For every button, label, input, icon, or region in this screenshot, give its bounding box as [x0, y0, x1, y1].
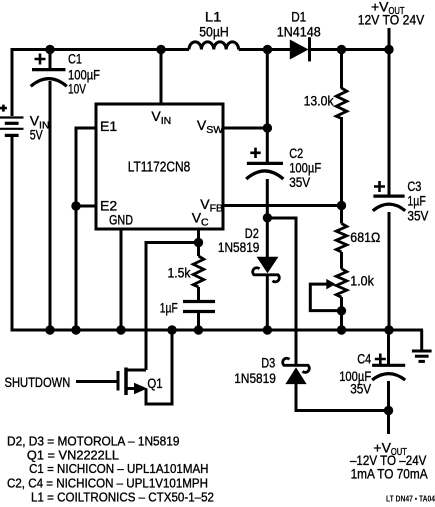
wire D2 node to D3 branch — [267, 218, 296, 364]
svg-text:5V: 5V — [30, 126, 44, 142]
capacitor C4 — [372, 365, 405, 380]
svg-text:1.5k: 1.5k — [168, 265, 192, 281]
wire C4 top lead — [387, 330, 390, 365]
svg-text:13.0k: 13.0k — [304, 92, 335, 108]
wire battery bottom to ground rail — [11, 136, 14, 332]
diode D2 schottky — [253, 257, 280, 282]
capacitor C3 — [373, 196, 405, 211]
svg-text:D3: D3 — [261, 355, 275, 371]
wire ground rail — [12, 329, 423, 332]
svg-text:1N5819: 1N5819 — [218, 239, 260, 255]
svg-text:1N4148: 1N4148 — [277, 23, 321, 39]
wire 1.5k to 1uF — [197, 287, 200, 301]
wire E1 E2 vertical to ground — [76, 128, 96, 330]
svg-text:C1 = NICHICON – UPL1A101MAH: C1 = NICHICON – UPL1A101MAH — [29, 461, 208, 476]
wire top rail — [12, 48, 389, 51]
wire VSW pin to C2 line — [223, 127, 267, 130]
inductor L1 — [189, 42, 239, 50]
node dot pot bottom — [337, 306, 346, 315]
wire pot bottom lead — [340, 297, 343, 330]
svg-text:1N5819: 1N5819 — [234, 370, 276, 386]
wire VIN pin to top rail — [160, 48, 163, 104]
svg-text:LT1172CN8: LT1172CN8 — [128, 159, 191, 176]
svg-text:C2, C4 = NICHICON – UPL1V101MP: C2, C4 = NICHICON – UPL1V101MPH — [7, 475, 208, 490]
svg-text:Q1 = VN2222LL: Q1 = VN2222LL — [27, 447, 119, 462]
wire shutdown gate lead — [76, 380, 117, 383]
resistor 13.0k — [336, 88, 347, 119]
wire C2 vertical upper — [266, 48, 269, 163]
svg-text:35V: 35V — [407, 208, 429, 224]
ground — [412, 351, 432, 361]
svg-text:35V: 35V — [350, 381, 372, 397]
svg-text:SHUTDOWN: SHUTDOWN — [5, 374, 71, 390]
wire VC node to Q1 drain — [146, 243, 199, 371]
wire D3 anode down and across to C4 bottom — [296, 384, 389, 411]
node dot C4 bottom — [384, 406, 393, 415]
node dots ground rail — [45, 325, 393, 334]
svg-text:Q1: Q1 — [147, 375, 162, 391]
capacitor 1uF at VC — [183, 302, 215, 312]
svg-text:D1: D1 — [291, 9, 306, 25]
svg-text:C1: C1 — [68, 50, 82, 66]
battery plus sign — [0, 105, 7, 112]
Q1 source arrow — [135, 384, 147, 394]
wire divider upper 13k leads — [340, 48, 343, 206]
C4 plus sign — [375, 354, 386, 365]
wire C3 bottom lead to ground rail — [388, 212, 391, 330]
resistor 681 — [336, 224, 347, 253]
node dot VFB divider — [337, 201, 346, 210]
wire C1 bottom lead — [49, 81, 52, 330]
node dot VSW — [263, 123, 272, 132]
C1 plus sign — [35, 54, 46, 65]
diode D1 — [290, 37, 309, 61]
svg-text:C4: C4 — [357, 351, 371, 367]
wire C1 top lead — [49, 48, 52, 69]
node dots top rail — [45, 45, 393, 54]
svg-text:35V: 35V — [289, 174, 311, 190]
C2 plus sign — [250, 148, 260, 158]
wire pot wiper — [310, 284, 341, 311]
wire VC pin to node — [197, 229, 200, 243]
svg-text:1.0k: 1.0k — [350, 272, 374, 288]
node dot E2 — [71, 201, 80, 210]
C3 plus sign — [374, 181, 385, 192]
wire left vertical from rail to battery — [11, 48, 14, 116]
svg-text:E1: E1 — [100, 118, 117, 134]
wire C2 vertical lower through D2 node — [266, 179, 269, 258]
wire C4 bottom lead and output stub — [387, 381, 390, 434]
svg-text:LT DN47 • TA04: LT DN47 • TA04 — [386, 494, 435, 503]
svg-text:L1: L1 — [205, 9, 222, 25]
wire Q1 source to ground rail — [146, 330, 172, 404]
capacitor C1 — [31, 70, 67, 87]
battery VIN — [0, 118, 24, 136]
wire 1uF to ground rail — [197, 312, 200, 331]
svg-text:50µH: 50µH — [199, 23, 229, 39]
wire D2 cathode to ground rail — [266, 276, 269, 330]
wire ground symbol stub — [420, 330, 423, 351]
node dot D2 top — [263, 213, 272, 222]
diode D3 schottky — [283, 358, 310, 383]
wire GND pin to ground rail — [120, 229, 123, 330]
svg-text:1µF: 1µF — [407, 193, 426, 209]
svg-text:12V TO 24V: 12V TO 24V — [358, 11, 425, 27]
potentiometer wiper arrow — [327, 280, 335, 289]
wire VFB row — [223, 204, 342, 207]
svg-text:L1 = COILTRONICS – CTX50-1–52: L1 = COILTRONICS – CTX50-1–52 — [31, 489, 214, 504]
svg-text:D2, D3 = MOTOROLA – 1N5819: D2, D3 = MOTOROLA – 1N5819 — [7, 433, 180, 448]
svg-text:681Ω: 681Ω — [350, 229, 380, 245]
wire C3 top lead from rail — [388, 28, 391, 196]
wire divider middle 681 leads — [340, 206, 343, 269]
resistor 1.5k — [193, 256, 204, 287]
svg-text:1mA TO 70mA: 1mA TO 70mA — [351, 465, 429, 481]
svg-text:GND: GND — [109, 211, 133, 227]
transistor Q1 mosfet — [118, 368, 146, 396]
svg-text:1µF: 1µF — [160, 300, 178, 316]
capacitor C2 — [246, 163, 283, 179]
potentiometer 1.0k — [336, 269, 347, 298]
op-amp U1 LT1172CN8 box — [96, 104, 223, 229]
svg-text:10V: 10V — [68, 81, 86, 97]
wire 1.5k top lead — [197, 243, 200, 257]
node dot VC — [194, 238, 203, 247]
